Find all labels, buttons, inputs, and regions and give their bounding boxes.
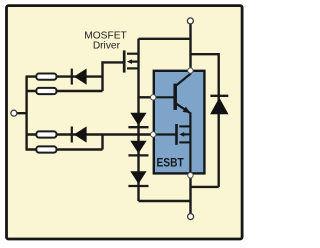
wire driver drain to top rail [139, 38, 191, 40]
wire chain bottom to emitter rail [139, 200, 191, 202]
MOSFET driver Q1 [124, 50, 138, 72]
diode D4 (chain middle, cathode down) [128, 141, 148, 156]
pin node gate [151, 132, 156, 137]
resistor R3 [36, 131, 56, 137]
wire input terminal link [17, 112, 27, 114]
wire gate link up [103, 62, 125, 91]
wire driver source / diode chain vertical [137, 39, 139, 201]
transistor Q3 (MOSFET inside ESBT) [153, 124, 190, 145]
resistor R4 [36, 146, 56, 152]
diode D1 (row1, cathode left) [72, 69, 87, 85]
terminal input left [11, 110, 17, 116]
pin node base [151, 95, 156, 100]
wire row4 link up [101, 135, 103, 150]
terminal bottom (emitter) [188, 214, 194, 220]
svg-text:Driver: Driver [93, 41, 121, 52]
diode D6 (freewheel right, cathode up) [210, 96, 228, 115]
terminal top (collector) [187, 18, 193, 24]
pin node emitter [188, 173, 193, 178]
wire base link [139, 96, 154, 98]
resistor R1 [36, 74, 56, 80]
wire right diode bottom link [191, 186, 219, 188]
ESBT box U1 [154, 71, 205, 174]
wire left bus [25, 77, 27, 150]
wire row1 [26, 75, 103, 77]
wire row3 [26, 133, 153, 135]
wire right diode vertical [217, 95, 219, 187]
wire emitter node to bottom terminal [189, 175, 191, 214]
diode D3 (chain top, cathode down) [128, 113, 148, 127]
svg-text:ESBT: ESBT [157, 156, 185, 170]
schematic frame [7, 6, 243, 239]
resistor R2 [36, 88, 56, 94]
driver body arrow [127, 59, 132, 64]
diode D5 (chain bottom, cathode down) [128, 171, 148, 186]
wire top terminal to collector node [189, 23, 191, 70]
wire row4 [26, 148, 103, 150]
diode D2 (row3, cathode left) [72, 126, 87, 142]
pin node collector [188, 68, 193, 73]
Q3 body arrow [179, 132, 184, 137]
wire collector rail to right diode top [191, 54, 219, 95]
Q2 emitter arrow [183, 107, 191, 114]
transistor Q2 (BJT inside ESBT) [153, 70, 190, 175]
wire row2 [26, 90, 103, 92]
